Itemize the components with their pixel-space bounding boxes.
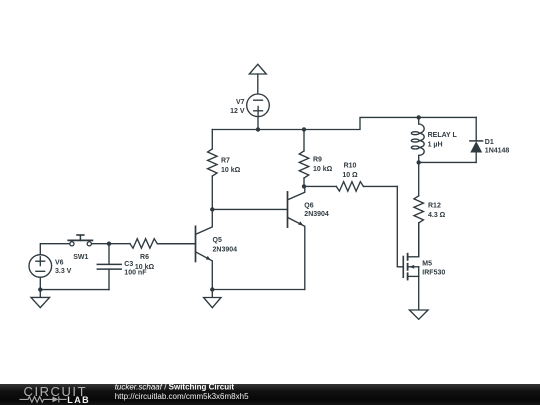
node V7-rail junction <box>256 127 260 131</box>
svg-text:3.3 V: 3.3 V <box>55 268 72 275</box>
resistor R9 <box>299 130 309 187</box>
svg-text:12 V: 12 V <box>230 108 245 115</box>
svg-text:10 Ω: 10 Ω <box>342 172 358 179</box>
resistor R6 <box>109 239 196 249</box>
svg-text:1 µH: 1 µH <box>428 142 443 149</box>
svg-text:1N4148: 1N4148 <box>485 148 510 155</box>
svg-text:C3: C3 <box>124 261 133 268</box>
capacitor C3 <box>97 244 121 290</box>
wire R10 to M5 gate <box>397 186 403 266</box>
svg-text:LAB: LAB <box>67 395 90 405</box>
svg-text:R9: R9 <box>313 157 322 164</box>
svg-text:2N3904: 2N3904 <box>213 246 238 253</box>
wire Q5 collector to Q6 base <box>212 208 287 210</box>
wire emitter bottom rail <box>212 289 304 291</box>
ground below V6 <box>31 290 50 308</box>
svg-text:M5: M5 <box>422 260 432 267</box>
node V6 bottom junction <box>38 287 42 291</box>
footer bar <box>0 384 540 405</box>
node relay top junction <box>417 115 421 119</box>
resistor R12 <box>414 162 424 256</box>
MOSFET M5 IRF530 <box>403 223 418 310</box>
CircuitLab logo wire motif <box>19 396 66 402</box>
svg-text:Q6: Q6 <box>304 202 313 209</box>
wire top rail <box>212 117 476 129</box>
svg-text:Q5: Q5 <box>213 237 222 244</box>
svg-text:V7: V7 <box>236 99 245 106</box>
svg-text:2N3904: 2N3904 <box>304 211 329 218</box>
resistor R10 <box>304 182 397 192</box>
node Q6 collector junction <box>302 184 306 188</box>
svg-text:10 kΩ: 10 kΩ <box>221 167 241 174</box>
transistor Q6 2N3904 <box>288 186 305 289</box>
node Q5 collector junction <box>210 207 214 211</box>
svg-text:D1: D1 <box>485 139 494 146</box>
ground below M5 <box>409 310 428 319</box>
transistor Q5 2N3904 <box>158 209 212 289</box>
voltage source V6 <box>29 244 70 290</box>
voltage source V7 <box>247 94 270 130</box>
node relay bottom junction <box>417 160 421 164</box>
power flag V7 supply arrow <box>249 64 266 94</box>
svg-text:10 kΩ: 10 kΩ <box>135 264 155 271</box>
switch SW1 <box>68 235 109 246</box>
resistor R7 <box>208 130 218 210</box>
svg-text:10 kΩ: 10 kΩ <box>313 166 333 173</box>
svg-text:R12: R12 <box>428 202 441 209</box>
svg-text:R10: R10 <box>344 162 357 169</box>
diode D1 1N4148 <box>419 117 483 162</box>
node R9-rail junction <box>302 127 306 131</box>
node Q5 emitter junction <box>210 287 214 291</box>
inductor RELAY L <box>411 117 424 162</box>
svg-text:R6: R6 <box>140 254 149 261</box>
node SW1/C3/R6 junction <box>107 242 111 246</box>
svg-text:4.3 Ω: 4.3 Ω <box>428 212 446 219</box>
svg-text:SW1: SW1 <box>73 254 88 261</box>
ground below Q5 <box>204 290 221 308</box>
svg-text:R7: R7 <box>221 158 230 165</box>
svg-text:http://circuitlab.com/cmm5k3x6: http://circuitlab.com/cmm5k3x6m8xh5 <box>115 392 249 401</box>
svg-text:IRF530: IRF530 <box>422 269 445 276</box>
svg-text:tucker.schaaf / Switching Circ: tucker.schaaf / Switching Circuit <box>115 383 235 392</box>
svg-text:V6: V6 <box>55 259 64 266</box>
svg-text:RELAY L: RELAY L <box>428 132 458 139</box>
wire V6 to C3 bottom <box>40 289 109 291</box>
